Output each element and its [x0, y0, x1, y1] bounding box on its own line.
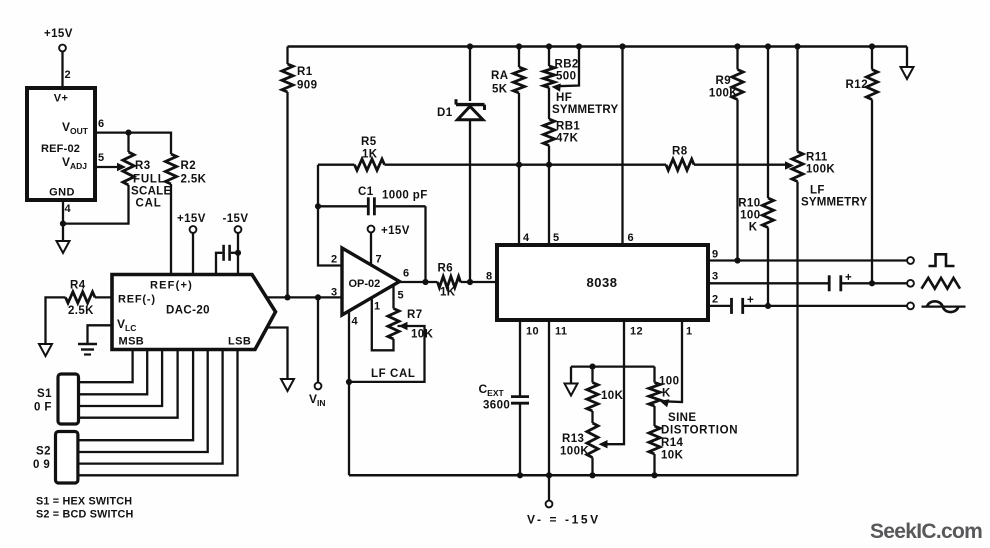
svg-text:100K: 100K: [560, 446, 589, 458]
wire: DAC data bit 3 to switch: [79, 350, 163, 407]
junction: feedback rail / pin5 line: [546, 162, 552, 168]
trimmer RB2 500 (HF SYMMETRY): [548, 47, 550, 67]
svg-text:SeekIC.com: SeekIC.com: [870, 520, 982, 543]
resistor R9 100K: [736, 47, 738, 70]
wire: C1 right to op-amp output node: [424, 206, 426, 282]
junction: top bus / R10: [765, 43, 771, 49]
junction: rail / 10K resistor: [589, 364, 595, 370]
wire: DAC data bit 6 to switch: [78, 350, 208, 453]
svg-text:10K: 10K: [661, 450, 684, 462]
svg-text:MSB: MSB: [119, 336, 145, 348]
svg-text:5: 5: [398, 290, 405, 302]
svg-text:REF(-): REF(-): [118, 294, 156, 306]
wire: 8038 pin 1 to 100K wiper: [664, 320, 682, 402]
resistor R1 909: [286, 47, 288, 65]
wire: top bus: [288, 45, 908, 48]
junction: top bus / RB2 wiper: [576, 43, 582, 49]
svg-text:REF-02: REF-02: [41, 143, 80, 155]
svg-text:2.5K: 2.5K: [181, 174, 207, 186]
svg-text:+15V: +15V: [381, 225, 410, 237]
svg-text:RB1: RB1: [556, 121, 580, 133]
svg-text:+: +: [747, 295, 754, 307]
svg-text:V- = -15V: V- = -15V: [527, 513, 601, 527]
power terminal V- = -15V: [546, 501, 553, 508]
junction: top bus / RB2: [546, 43, 552, 49]
bypass capacitor (DAC supply): [231, 252, 238, 254]
wire: top bus to 8038 pin 6: [621, 47, 623, 246]
svg-text:-15V: -15V: [223, 213, 249, 225]
svg-text:500: 500: [556, 71, 576, 83]
svg-text:R3: R3: [135, 160, 151, 172]
svg-text:0 F: 0 F: [34, 402, 52, 414]
svg-text:R6: R6: [438, 263, 454, 275]
svg-text:5: 5: [98, 152, 105, 164]
svg-text:LF CAL: LF CAL: [371, 368, 415, 380]
wire: R14 bottom to V- bus: [653, 454, 655, 475]
wire: DAC data bit 7 to switch: [78, 350, 223, 464]
wire: RB2 wiper return to bus: [558, 47, 579, 87]
resistor 100K (sine distortion pot): [653, 367, 655, 383]
junction: CEXT / V- bus: [517, 472, 523, 478]
wire: DAC data bit 1 to switch: [79, 350, 133, 383]
junction: DAC output / R1: [284, 294, 290, 300]
svg-text:909: 909: [297, 80, 317, 92]
wire: R11 bottom to V- bus: [796, 182, 798, 476]
svg-text:5: 5: [553, 232, 560, 244]
svg-text:R2: R2: [181, 160, 197, 172]
svg-text:4: 4: [352, 316, 359, 328]
svg-text:4: 4: [65, 203, 72, 215]
junction: VOUT / R3 top: [125, 130, 131, 136]
svg-text:R11: R11: [806, 152, 828, 164]
switch S2 (BCD) body: [56, 432, 78, 484]
wire: 8038 pin 3 to coupling cap: [708, 282, 828, 284]
wire: -15V to DAC top: [237, 233, 239, 275]
svg-text:R10: R10: [738, 198, 760, 210]
svg-text:R1: R1: [297, 66, 313, 78]
wire: CEXT to V- bus: [519, 404, 521, 476]
junction: GND pin4 / R3 return: [60, 221, 66, 227]
svg-text:2: 2: [712, 294, 719, 306]
svg-text:6: 6: [628, 232, 635, 244]
wire: REF-02 GND pin 4 down: [62, 200, 64, 241]
svg-text:7: 7: [376, 254, 383, 266]
junction: pin4 line / R7 wiper return: [346, 379, 352, 385]
svg-text:2: 2: [65, 69, 72, 81]
wire: distortion network top rail: [571, 365, 655, 367]
wire: DAC data bit 4 to switch: [79, 350, 178, 418]
earth ground (VLC): [78, 343, 97, 346]
wire: R4 left to ground: [46, 297, 66, 344]
svg-text:1K: 1K: [440, 287, 456, 299]
output terminal (sine): [907, 303, 914, 310]
junction: pin 11 / V- bus: [546, 472, 552, 478]
wire: D1 top lead: [469, 47, 471, 102]
wire: top bus right end drop: [906, 47, 908, 68]
resistor 10K (pin 12 network): [591, 367, 593, 383]
wire: cap to sine output: [744, 305, 907, 307]
svg-text:1: 1: [374, 301, 381, 313]
svg-text:8038: 8038: [587, 275, 618, 290]
svg-text:3: 3: [331, 287, 338, 299]
wire: R13 bottom to V- bus: [591, 458, 593, 476]
wire: 8038 pin 10 to CEXT: [519, 320, 521, 396]
wire: op-amp pin 1 to R7 bottom: [372, 297, 394, 350]
svg-text:GND: GND: [49, 187, 75, 199]
svg-text:2: 2: [331, 254, 338, 266]
junction: top bus / D1: [467, 43, 473, 49]
wire: DAC complementary output to ground: [267, 328, 288, 380]
svg-text:2.5K: 2.5K: [68, 305, 94, 317]
wire: V- bottom bus: [349, 474, 798, 477]
svg-text:9: 9: [712, 249, 719, 261]
svg-text:C1: C1: [358, 186, 374, 198]
svg-text:100K: 100K: [806, 164, 835, 176]
junction: DAC output / VIN: [315, 294, 321, 300]
svg-text:OP-02: OP-02: [349, 278, 381, 290]
svg-text:+15V: +15V: [44, 28, 73, 40]
wire: R4 right to DAC REF(-): [95, 296, 112, 298]
resistor R12: [871, 47, 873, 70]
ground (distortion rail): [565, 384, 578, 396]
wire: DAC data bit 2 to switch: [79, 350, 148, 395]
junction: output node / C1 branch: [422, 279, 428, 285]
junction: R14 / V- bus: [651, 472, 657, 478]
resistor R3 (FULL SCALE CAL trimmer): [123, 152, 134, 185]
wire: +15V to DAC top: [192, 233, 194, 275]
svg-text:10K: 10K: [411, 329, 434, 341]
resistor RA 5K: [518, 47, 520, 68]
wire: DAC data bit 5 to switch: [78, 350, 193, 441]
svg-text:S1: S1: [37, 388, 52, 400]
junction: pin 9 wire / R9: [734, 257, 740, 263]
svg-text:K: K: [749, 222, 758, 234]
zener diode D1: [456, 103, 485, 106]
output terminal (triangle): [907, 280, 914, 287]
svg-text:1: 1: [686, 326, 693, 338]
junction: -15V / bypass cap: [235, 250, 241, 256]
op-amp U3 OP-02: [342, 248, 400, 315]
junction: top bus / R9: [734, 43, 740, 49]
svg-text:V+: V+: [54, 93, 69, 105]
svg-text:DISTORTION: DISTORTION: [661, 425, 738, 437]
wire: R3 bottom to GND node: [63, 185, 129, 224]
wire: 8038 pin 2 to coupling cap: [708, 305, 730, 307]
wire: DAC output to op-amp pin 3: [267, 296, 343, 298]
junction: pin2 node / C1: [315, 203, 321, 209]
ground (below REF-02): [57, 241, 70, 253]
svg-text:LF: LF: [810, 185, 825, 197]
svg-text:8: 8: [486, 271, 493, 283]
resistor R4 2.5K: [66, 292, 96, 303]
junction: top bus / RA: [516, 43, 522, 49]
power terminal +15V (op-amp pin 7): [368, 226, 375, 233]
wire: DAC VLC to earth ground: [88, 325, 113, 344]
coupling capacitor (sine out): [730, 298, 733, 314]
input terminal VIN: [315, 383, 322, 390]
junction: pin 3 wire / R12: [869, 280, 875, 286]
switch S1 (hex) body: [58, 374, 79, 424]
square wave symbol: [929, 254, 955, 266]
svg-text:+15V: +15V: [177, 213, 206, 225]
svg-text:HF: HF: [556, 92, 572, 104]
svg-text:47K: 47K: [556, 133, 579, 145]
svg-text:SCALE: SCALE: [131, 186, 172, 198]
svg-text:100: 100: [740, 210, 760, 222]
svg-text:S2: S2: [36, 446, 51, 458]
svg-text:LSB: LSB: [228, 336, 251, 348]
wiper arrow into RB2: [552, 83, 561, 91]
junction: top bus / pin6 line: [619, 43, 625, 49]
resistor R8: [666, 159, 694, 170]
wire: ground stub (distortion rail): [570, 367, 572, 384]
svg-text:0 9: 0 9: [33, 459, 50, 471]
wire: op-amp pin 5 to R7: [392, 285, 394, 308]
svg-text:FULL: FULL: [133, 174, 166, 186]
ground (DAC output): [281, 379, 294, 391]
wire: pin 7 lead: [370, 232, 372, 267]
svg-text:R8: R8: [672, 146, 688, 158]
ground (R4): [39, 344, 52, 356]
wire: op-amp output to 8038 pin 8: [400, 281, 438, 283]
wire: 8038 pin 12 to R13 wiper: [604, 320, 624, 444]
svg-text:CAL: CAL: [136, 198, 162, 210]
IC U4 8038 body: [497, 245, 708, 320]
triangle wave symbol: [922, 278, 961, 289]
junction: top bus / R12: [869, 43, 875, 49]
svg-text:R5: R5: [361, 136, 377, 148]
junction: R13 / V- bus: [589, 472, 595, 478]
wire: RB1 bottom to 8038 pin 5: [548, 146, 550, 246]
svg-text:R13: R13: [562, 433, 584, 445]
sine wave symbol: [922, 306, 966, 308]
svg-text:12: 12: [630, 326, 643, 338]
IC U1 REF-02 box: [27, 88, 95, 200]
svg-text:S2 = BCD SWITCH: S2 = BCD SWITCH: [36, 509, 133, 521]
resistor RB1 47K: [548, 88, 550, 120]
wire: R9 bottom to pin 9 wire: [736, 100, 738, 261]
svg-text:11: 11: [555, 326, 567, 338]
capacitor CEXT 3600: [511, 395, 529, 398]
svg-text:10: 10: [526, 326, 539, 338]
wire: 8038 pin 11 to V- terminal: [548, 320, 550, 501]
wire: R3 top lead: [127, 133, 129, 152]
svg-text:D1: D1: [437, 107, 453, 119]
capacitor C1 1000 pF: [318, 205, 367, 207]
coupling capacitor (triangle out): [828, 275, 831, 291]
resistor R14 10K: [653, 406, 655, 426]
trimmer R11 100K (LF SYMMETRY): [796, 47, 798, 152]
ground (top bus right): [901, 67, 914, 79]
wire: cap to triangle output: [842, 282, 907, 284]
svg-text:RB2: RB2: [555, 59, 579, 71]
svg-text:SYMMETRY: SYMMETRY: [801, 197, 867, 209]
wire: 8038 pin 9 to square output: [708, 259, 907, 261]
wire: R7 wiper to V- node: [399, 322, 408, 330]
wire: R2 bottom to DAC-20 REF(+) pin: [170, 184, 172, 275]
DAC U2 DAC-20 body: [112, 275, 276, 350]
junction: D1 / R6-pin8 wire: [467, 279, 473, 285]
resistor R7 10K trimmer: [388, 309, 399, 340]
svg-text:1000 pF: 1000 pF: [382, 190, 428, 202]
trimmer R13 100K: [591, 411, 593, 423]
svg-text:R7: R7: [407, 309, 423, 321]
wire: pin2 node vertical: [318, 165, 342, 266]
svg-text:10K: 10K: [601, 390, 624, 402]
junction: top bus / R11: [794, 43, 800, 49]
wire: VIN drop: [317, 297, 319, 382]
wire: R12 bottom to pin 3 wire: [871, 100, 873, 284]
wire: VADJ pin 5 to R3 wiper: [95, 166, 120, 168]
svg-text:5K: 5K: [492, 84, 508, 96]
wire: op-amp pin 4 down to V- bus: [348, 310, 350, 476]
wire: D1 bottom lead to pin-8 node: [469, 120, 471, 282]
svg-text:R9: R9: [715, 75, 731, 87]
svg-text:SINE: SINE: [668, 412, 696, 424]
svg-text:SYMMETRY: SYMMETRY: [552, 104, 618, 116]
svg-text:3: 3: [712, 271, 719, 283]
resistor R10 100K: [767, 47, 769, 199]
resistor R5 1K: [355, 159, 385, 170]
svg-text:4: 4: [523, 232, 530, 244]
resistor R6 1K: [438, 276, 461, 287]
wire: VOUT pin 6 to R2 top: [95, 133, 171, 154]
wire: feedback rail (R5/R8 line): [318, 164, 355, 166]
svg-text:R4: R4: [70, 280, 86, 292]
wire: R10 bottom to pin 2 wire: [767, 228, 769, 306]
svg-text:1K: 1K: [362, 149, 378, 161]
svg-text:S1 = HEX SWITCH: S1 = HEX SWITCH: [36, 496, 132, 508]
svg-text:RA: RA: [491, 70, 508, 82]
svg-text:6: 6: [403, 268, 410, 280]
svg-text:REF(+): REF(+): [150, 280, 193, 292]
junction: feedback rail / pin4 line: [516, 162, 522, 168]
svg-text:3600: 3600: [483, 400, 510, 412]
svg-text:R14: R14: [661, 437, 684, 449]
svg-text:K: K: [662, 388, 671, 400]
svg-text:DAC-20: DAC-20: [166, 305, 210, 317]
junction: pin 2 wire / R10: [765, 303, 771, 309]
svg-text:100K: 100K: [709, 88, 738, 100]
svg-text:6: 6: [98, 118, 105, 130]
wire: RA bottom to 8038 pin 4: [518, 93, 520, 245]
wiper arrow into R11 (LF SYMMETRY): [785, 161, 794, 169]
output terminal (square): [907, 257, 914, 264]
wire: +15V terminal to REF-02 pin 2: [61, 51, 63, 88]
wire: DAC data bit 8 to switch: [78, 350, 238, 476]
resistor R2 2.5K: [165, 154, 176, 184]
svg-text:R12: R12: [846, 79, 869, 91]
svg-text:100: 100: [659, 376, 679, 388]
